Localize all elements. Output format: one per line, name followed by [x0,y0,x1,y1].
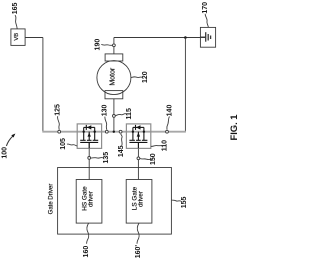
node 135 [88,152,110,164]
svg-text:190: 190 [94,39,101,51]
svg-text:155: 155 [181,196,188,208]
svg-text:130: 130 [102,104,109,116]
wire LS gate down to driver [137,142,139,179]
svg-text:165: 165 [12,2,19,14]
wire driver output lead 160' [137,223,139,244]
node 140 [166,105,174,134]
svg-text:170: 170 [202,2,209,14]
junction dot top net [184,36,187,39]
wire VB to corner [25,37,43,39]
label 165 [12,2,19,28]
wire vertical from top net down to bus right end [184,38,186,132]
wire corner down to bus [42,38,44,132]
svg-text:100: 100 [1,147,8,159]
transistor Q 105 (high side) [77,124,101,148]
wire HS gate down to driver [88,142,90,179]
node 150 [137,153,157,165]
svg-text:driver: driver [138,190,145,207]
LS gate driver box [126,180,152,224]
HS gate driver box [76,180,102,224]
label 110 [151,140,169,151]
label 155 [172,196,189,208]
svg-text:135: 135 [103,152,110,164]
svg-text:Gate Driver: Gate Driver [49,184,55,215]
svg-text:110: 110 [162,140,169,151]
label 105 [60,138,77,150]
transistor Q 110 (low side) [126,124,150,148]
svg-text:VB: VB [14,33,20,41]
svg-text:driver: driver [88,190,95,207]
label 170 [202,2,209,28]
node 125 [55,104,62,133]
label 100 [1,134,15,159]
wire top net to ground connector [114,37,206,39]
junction dot motor/bus [113,131,115,133]
wire motor bottom to bus [113,99,115,132]
node 130 [102,104,109,133]
supply box VB [11,29,25,46]
svg-text:115: 115 [126,108,133,119]
motor M 120 [97,54,131,99]
svg-text:160': 160' [135,245,142,259]
svg-text:140: 140 [166,105,173,117]
svg-text:Motor: Motor [110,67,117,86]
svg-text:145: 145 [118,145,125,157]
svg-text:FIG. 1: FIG. 1 [228,114,239,140]
wire motor top to node 190 and terminal [113,38,115,54]
svg-text:125: 125 [55,104,62,116]
node 145 [118,130,125,157]
label 120 [131,71,149,83]
ground connector box 170 [200,27,215,47]
wire driver output lead 160 [87,223,89,244]
node 115 [113,108,134,119]
node 190 [94,39,115,51]
gate driver outer box 155 [49,168,172,235]
bus wire [42,131,186,133]
svg-text:105: 105 [60,138,67,150]
svg-text:160: 160 [83,246,90,258]
svg-text:120: 120 [142,71,149,83]
